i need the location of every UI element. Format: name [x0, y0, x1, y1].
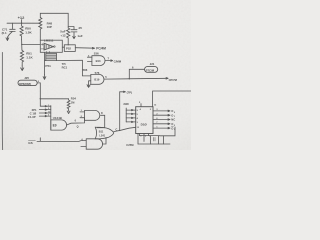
svg-text:NC: NC	[171, 118, 175, 122]
wire main rail	[7, 22, 40, 24]
gate OR B11	[95, 127, 114, 139]
wire feedback loop top	[40, 13, 68, 28]
box P52	[64, 45, 75, 52]
capacitor C71	[9, 23, 15, 34]
wire op-amp bottom drop	[44, 52, 46, 74]
ground under R51	[21, 65, 24, 70]
node +12 label	[18, 15, 26, 20]
pin -	[41, 48, 44, 50]
label 29D	[123, 102, 128, 106]
node junction rail/R50	[21, 23, 22, 24]
net arrow CP/7M	[166, 78, 168, 80]
delay line component under op-amp	[46, 53, 57, 60]
wire bottom pin rail	[140, 136, 160, 144]
wire +12 drop	[21, 20, 23, 24]
gate AND2	[86, 139, 102, 149]
svg-text:J25: J25	[24, 76, 29, 80]
wire drop to gate2 input	[82, 60, 90, 76]
wire divider node to op-amp + input	[22, 40, 41, 50]
pin +	[41, 44, 44, 46]
net GS wire	[28, 141, 32, 145]
svg-text:C: C	[115, 127, 117, 131]
wire row1 from J25 bus	[40, 106, 51, 107]
gate U124B E9 input bus	[50, 106, 52, 131]
svg-text:J21: J21	[150, 62, 155, 66]
top pins	[140, 104, 142, 107]
svg-text:LM311: LM311	[44, 38, 54, 42]
svg-text:Q: Q	[77, 126, 79, 129]
page edge line	[1, 53, 3, 151]
svg-text:RC1: RC1	[62, 65, 68, 69]
svg-text:C25M: C25M	[126, 143, 134, 147]
resistor R54	[67, 99, 70, 111]
svg-text:586: 586	[83, 68, 88, 72]
svg-text:1.5K: 1.5K	[25, 31, 32, 35]
svg-text:P7C/M: P7C/M	[146, 69, 155, 73]
svg-text:B19: B19	[94, 78, 99, 82]
ground under C71	[6, 35, 9, 41]
op-amp triangle	[44, 43, 54, 50]
pin numbers inside left edge	[137, 110, 140, 129]
svg-text:B13: B13	[96, 59, 101, 63]
wire J25 out down the bus	[37, 83, 40, 106]
left pins with arrows	[126, 109, 136, 110]
svg-text:1.1K: 1.1K	[26, 55, 33, 59]
svg-text:+12: +12	[60, 33, 66, 37]
svg-text:.05: .05	[78, 26, 83, 30]
ground below gate2	[87, 84, 90, 87]
gate2 NAND B19	[91, 74, 104, 84]
svg-text:10P: 10P	[47, 25, 52, 29]
paper background	[0, 0, 191, 150]
svg-text:P51: P51	[45, 64, 51, 68]
wire chip bottom-left to C25M	[137, 134, 139, 145]
AND2 inputs	[81, 146, 86, 148]
wire bottom rail lower	[138, 143, 170, 145]
svg-text:PC/4M: PC/4M	[96, 47, 106, 51]
net labels into E9	[28, 108, 37, 119]
svg-text:P52: P52	[66, 47, 71, 51]
svg-text:GS: GS	[28, 141, 32, 145]
svg-text:C1.3P: C1.3P	[28, 115, 36, 119]
svg-text:D: D	[101, 112, 103, 115]
left pin bus	[125, 108, 127, 122]
wire delay line to gate2	[45, 59, 83, 61]
arrow down above J25 node	[43, 75, 46, 80]
wire op-amp out to box	[62, 46, 64, 48]
wire bottom right hook	[160, 127, 176, 136]
svg-text:R54: R54	[71, 97, 77, 101]
net 7P label and wire	[120, 91, 126, 130]
svg-text:B11: B11	[99, 131, 104, 134]
svg-text:C/MM: C/MM	[114, 60, 122, 64]
ground under C25	[73, 35, 76, 38]
AND1 input stubs	[80, 112, 85, 118]
gate1 input stubs	[87, 57, 92, 61]
svg-text:(7P): (7P)	[127, 91, 132, 95]
gate1 output wire C/MM	[105, 60, 113, 62]
wire rows 2-4 with arrows	[39, 109, 51, 110]
wire riser to J21	[129, 69, 144, 79]
right pin output labels	[171, 109, 176, 131]
op-amp U1 comparator box	[40, 40, 62, 52]
gate1 536 label	[94, 52, 99, 56]
resistor R50	[20, 23, 23, 39]
wire right edge to chip top	[153, 91, 191, 107]
svg-text:+12: +12	[18, 15, 26, 20]
gate2 lower input stub to ground	[89, 81, 91, 84]
capacitor C25	[68, 27, 77, 36]
svg-text:1M: 1M	[71, 101, 75, 105]
svg-text:D1Ø: D1Ø	[141, 123, 148, 127]
svg-text:29D: 29D	[123, 102, 128, 106]
svg-text:LS41: LS41	[99, 134, 105, 137]
connector J21	[150, 62, 155, 66]
wire bottom right link	[159, 136, 164, 144]
resistor R51	[20, 50, 23, 66]
svg-text:E9: E9	[53, 124, 57, 128]
svg-text:U124B: U124B	[53, 116, 62, 120]
resistor R48	[39, 18, 42, 41]
wire gate2 long output	[104, 77, 168, 80]
svg-text:0P6(RM): 0P6(RM)	[19, 82, 31, 86]
net PC/4M arrow	[75, 47, 94, 49]
svg-text:536: 536	[94, 52, 99, 56]
svg-text:(0.1: (0.1	[2, 31, 7, 35]
connector J25	[24, 76, 29, 80]
AND2 output to OR	[103, 137, 107, 144]
wire OR output C	[114, 127, 136, 131]
gate AND1	[85, 110, 100, 120]
wire E9 output	[67, 118, 85, 125]
gate E9 body	[51, 120, 67, 130]
wire branch to R54	[40, 98, 68, 100]
bottom pins	[140, 134, 149, 142]
small cap at chip bottom	[154, 137, 155, 141]
right pin numbers	[156, 109, 158, 128]
resistor R52 pull-up	[67, 28, 70, 45]
IC U2 DIP body	[136, 107, 153, 134]
svg-text:1uF: 1uF	[77, 34, 83, 38]
AND1 output to OR	[97, 115, 105, 127]
arrow below R54	[67, 111, 70, 114]
pin stubs box bottom	[47, 51, 50, 53]
svg-text:CP/7M: CP/7M	[169, 78, 178, 82]
right pins with arrows	[153, 110, 170, 112]
gate1 NAND B13	[92, 56, 105, 66]
gate2 576 label	[83, 68, 100, 75]
